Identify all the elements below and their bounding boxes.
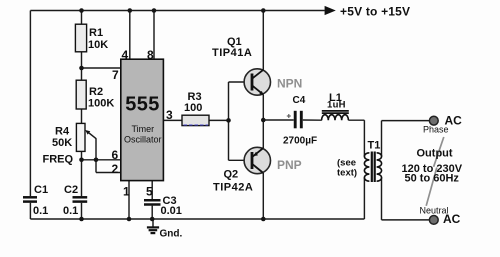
wire emitters to C4 [263,119,293,121]
wire C2 bottom to rail [81,203,83,219]
junction base bus R3 [226,118,231,123]
transistor Q1 TIP41A NPN [212,36,302,95]
svg-text:2: 2 [112,162,119,176]
wire Q1 collector to rail [262,11,264,70]
svg-text:Gnd.: Gnd. [160,229,183,240]
wire pin 5 to C3 [151,181,153,200]
junction rail ground [150,217,155,222]
wire wiper vertical [95,138,97,172]
svg-text:C4: C4 [293,95,306,106]
wire pin 3 to R3 [163,119,182,121]
wire Q2 base [229,159,253,161]
svg-text:1: 1 [123,185,130,199]
svg-text:text): text) [337,168,357,179]
svg-text:C1: C1 [34,184,48,196]
junction top rail R1 [79,8,84,13]
wire pin 1 [128,181,130,219]
junction rail C2 [79,217,84,222]
transistor Q2 TIP42A PNP [213,147,302,193]
svg-text:100: 100 [184,102,202,114]
potentiometer R4 [52,123,90,151]
svg-text:TIP42A: TIP42A [213,182,253,194]
wire pin 7 [82,67,121,69]
wire pin 8 [153,11,155,60]
wire R2 bottom to R4 top [81,109,83,123]
wire bottom ground rail [30,218,364,220]
capacitor C1 [23,197,37,201]
svg-text:8: 8 [147,48,154,62]
wire Q1 emitter down [262,95,264,120]
wire rail to R1 top [81,11,83,25]
wire C3 bottom to rail [151,206,153,219]
svg-text:Phase: Phase [423,125,449,135]
svg-text:0.1: 0.1 [63,205,78,217]
svg-text:NPN: NPN [277,77,302,91]
wire pin 2 [96,172,121,174]
wire left vertical below C1 [29,203,31,219]
capacitor C3 [144,200,161,204]
svg-text:Output: Output [417,148,453,160]
svg-text:FREQ: FREQ [43,154,74,166]
wire corner down to T1 primary top [363,120,365,156]
output bolt mark [426,137,444,206]
svg-text:TIP41A: TIP41A [212,47,252,59]
svg-text:0.1: 0.1 [33,205,48,217]
junction FREQ R4 bottom [79,158,84,163]
wire R3 to base bus [209,119,229,121]
svg-text:Neutral: Neutral [420,206,449,216]
junction R1-R2 pin7 [79,66,84,71]
wire R1 bottom to R2 top [81,52,83,80]
svg-text:0.01: 0.01 [161,205,182,217]
svg-text:Oscillator: Oscillator [124,134,162,144]
wire Q2 emitter up [262,120,264,148]
svg-text:2700µF: 2700µF [283,136,317,147]
resistor R1 [75,24,108,52]
wire L1 to corner [348,119,364,121]
wire C4 to L1 [303,119,322,121]
junction top rail Q1 collector [261,8,266,13]
svg-text:6: 6 [112,148,119,162]
terminal AC neutral [429,216,438,225]
wire Q2 collector to rail [262,173,264,219]
svg-text:555: 555 [125,94,160,116]
wire R4 bottom to C2 top [81,151,83,196]
wire pin 4 [129,11,131,60]
junction top rail pin8 [152,8,157,13]
svg-text:3: 3 [166,108,173,122]
arrow +V supply [325,6,336,15]
svg-text:R4: R4 [55,126,70,138]
capacitor C4 polarized [283,95,317,147]
svg-text:C2: C2 [64,184,78,196]
svg-text:PNP: PNP [277,158,302,172]
inductor L1 [322,92,349,120]
svg-text:7: 7 [112,68,119,82]
svg-text:R1: R1 [89,27,103,39]
svg-text:Timer: Timer [131,124,154,134]
wire pin 6 FREQ [82,159,121,161]
capacitor C2 [73,197,88,201]
svg-text:+5V to +15V: +5V to +15V [340,5,410,19]
junction rail Q2 collector [261,217,266,222]
wire Q1 base [229,81,253,83]
svg-text:10K: 10K [88,39,108,51]
wire T1 secondary bottom down [381,178,383,220]
transformer T1 [364,140,381,183]
svg-text:Q2: Q2 [224,169,239,181]
junction rail pin1 [127,217,132,222]
wire R4 wiper diagonal [87,131,97,139]
wire top supply rail [30,10,324,12]
svg-text:1uH: 1uH [327,100,346,111]
svg-text:R2: R2 [89,86,103,98]
wire left vertical [29,11,31,197]
wire T1 primary bottom to rail [363,178,365,220]
wire phase horizontal [382,120,430,122]
resistor R3 [182,91,209,126]
IC U1 555 timer [121,59,164,180]
junction top rail pin4 [128,8,133,13]
junction wiper pin6 [94,158,99,163]
wire base bus vertical [228,82,230,160]
svg-text:T1: T1 [368,140,381,152]
svg-text:50K: 50K [52,137,72,149]
terminal AC phase [429,116,438,125]
resistor R2 [76,80,114,109]
junction emitters node [261,118,266,123]
svg-text:100K: 100K [88,98,114,110]
svg-text:50 to 60Hz: 50 to 60Hz [405,173,460,185]
svg-text:4: 4 [122,48,129,62]
wire T1 secondary top up [381,121,383,157]
wire neutral horizontal [382,219,430,221]
ground [147,219,159,233]
svg-text:5: 5 [146,185,153,199]
